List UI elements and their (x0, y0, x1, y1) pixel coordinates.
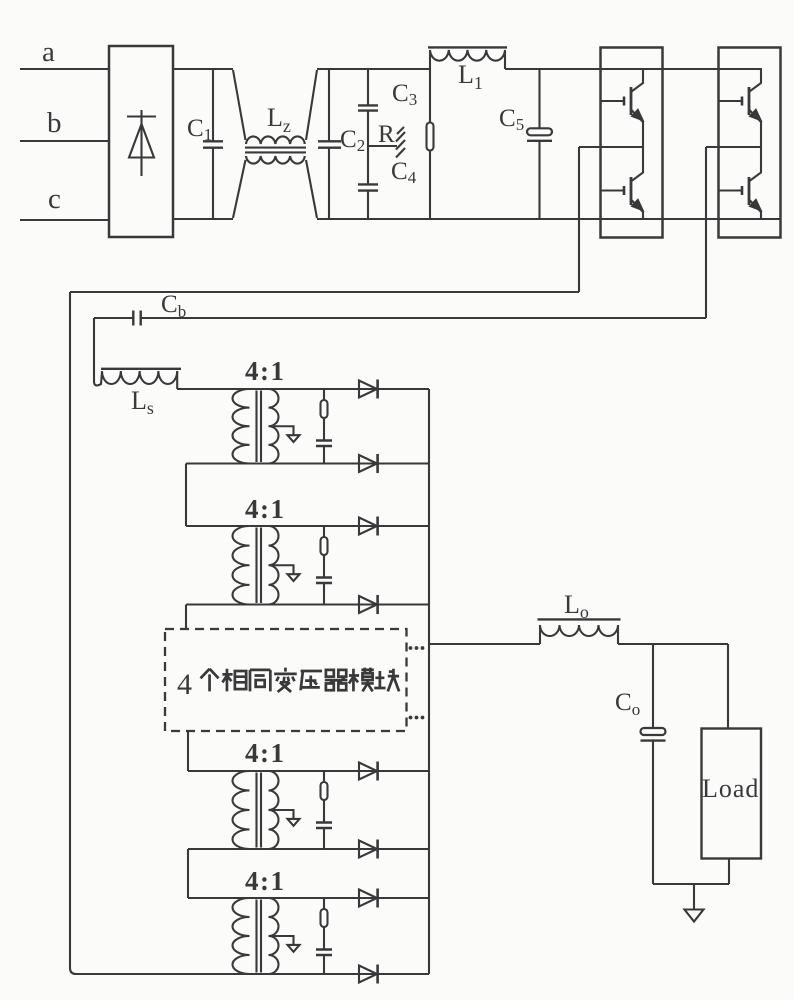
capacitor C2 snubber (316, 578, 332, 584)
wire module 3 bottom rail (188, 848, 429, 850)
wire module 2 top rail (186, 525, 429, 527)
transformer T1 secondary tap arrow (273, 426, 294, 435)
svg-text:4:1: 4:1 (245, 356, 286, 386)
wire Lo to load (618, 643, 728, 645)
svg-text:a: a (42, 36, 55, 68)
wire top DC rail (173, 68, 762, 70)
capacitor C3 (358, 69, 378, 146)
svg-text:C2: C2 (340, 126, 365, 155)
resistor branch with fuse-style element (427, 69, 434, 219)
load box (702, 729, 762, 859)
resistor R1 snubber (323, 389, 325, 400)
diode D1b bottom (359, 455, 377, 472)
svg-text:c: c (48, 183, 61, 215)
capacitor C1 (203, 69, 223, 219)
diode D3a top (359, 763, 377, 780)
wire bridge1 return to left rail (70, 291, 579, 293)
wire module 3 top rail (188, 770, 429, 772)
wire left rail down (70, 292, 76, 974)
wire node to damping R (368, 145, 397, 147)
wire down to Ls (93, 318, 95, 381)
transformer T1 secondary winding (269, 389, 279, 464)
svg-text:C1: C1 (187, 115, 212, 144)
svg-text:R: R (378, 121, 395, 148)
wire primary link module3 to module4 (187, 849, 189, 898)
transformer T4 core (257, 900, 262, 973)
svg-text:Load: Load (702, 774, 759, 803)
capacitor C4 snubber (316, 950, 332, 956)
IGBT Q4 bottom of bridge 2 (720, 147, 762, 219)
transformer T2 primary winding (233, 526, 250, 605)
svg-text:C3: C3 (392, 80, 417, 109)
capacitor C4 (358, 146, 378, 219)
svg-text:Ls: Ls (131, 386, 154, 418)
svg-text:Lz: Lz (267, 103, 291, 136)
inverter bridge block 1 (601, 48, 663, 238)
transformer T3 secondary tap arrow (273, 810, 294, 819)
diode D3b bottom (359, 841, 377, 858)
wire module 1 bottom rail (186, 462, 429, 464)
svg-text:L1: L1 (458, 60, 483, 93)
svg-text:4:1: 4:1 (245, 494, 286, 524)
node ellipsis top (409, 646, 413, 650)
capacitor Co (641, 644, 666, 884)
inductor Ls (94, 369, 181, 389)
svg-text:C5: C5 (499, 105, 524, 134)
wire output from bus to Lo (429, 643, 540, 645)
diode D4b bottom (359, 966, 377, 983)
wire output return (653, 883, 729, 885)
transformer T3 primary winding (233, 771, 250, 849)
capacitor C1 snubber (316, 441, 332, 447)
svg-text:Lo: Lo (564, 590, 589, 622)
wire primary link dashed box to module3 (187, 731, 189, 771)
inductor Lz common-mode choke (233, 70, 317, 218)
wire rectifier output bus (428, 389, 430, 974)
transformer T4 secondary winding (269, 898, 279, 974)
resistor R2 snubber (323, 526, 325, 537)
svg-text:4: 4 (177, 668, 192, 701)
IGBT Q3 top of bridge 2 (720, 69, 762, 147)
diode inside rectifier (127, 110, 156, 176)
wire phase b input (20, 140, 109, 142)
ground (685, 884, 704, 922)
wire bridge 2 midpoint (706, 147, 761, 318)
IGBT Q2 bottom of bridge 1 (602, 147, 644, 219)
wire phase a input (20, 68, 109, 70)
diode D2b bottom (359, 596, 377, 613)
inductor Lo (538, 619, 621, 644)
node ellipsis bottom (409, 716, 413, 720)
wire primary link module1 to module2 (185, 464, 187, 527)
svg-text:Cb: Cb (161, 291, 186, 321)
capacitor Cb (94, 311, 706, 326)
wire bottom DC rail (173, 218, 781, 220)
svg-text:Co: Co (615, 689, 640, 719)
wire primary link module2 into dashed box (185, 605, 187, 631)
label text: 4 identical transformer modules (4个相同变压器模块) (177, 668, 399, 701)
wire phase c input (20, 219, 109, 221)
capacitor C5 (527, 69, 552, 219)
transformer T4 secondary tap arrow (273, 936, 294, 945)
resistor R3 snubber (323, 771, 325, 782)
dashed box 4 identical transformer modules (165, 629, 407, 731)
transformer T1 core (257, 391, 262, 463)
capacitor C2 (318, 69, 341, 219)
resistor R chassis hatch symbol (396, 127, 405, 158)
transformer T2 core (257, 528, 262, 604)
wire bottom return rail (76, 973, 429, 975)
inverter bridge block 2 (719, 48, 781, 238)
resistor R4 snubber (323, 898, 325, 909)
svg-text:b: b (47, 107, 62, 139)
wire module 2 bottom rail (186, 603, 429, 605)
transformer T4 primary winding (233, 898, 250, 974)
transformer T2 secondary winding (269, 526, 279, 605)
diode D1a top (359, 381, 377, 398)
inductor L1 (428, 47, 507, 69)
IGBT Q1 top of bridge 1 (602, 69, 644, 147)
transformer T3 core (257, 773, 262, 848)
transformer T3 secondary winding (269, 771, 279, 849)
svg-text:C4: C4 (391, 158, 417, 187)
capacitor C3 snubber (316, 823, 332, 829)
svg-text:4:1: 4:1 (245, 738, 286, 768)
rectifier block (109, 46, 173, 237)
svg-text:4:1: 4:1 (245, 866, 286, 896)
transformer T1 primary winding (233, 389, 250, 464)
diode D4a top (359, 890, 377, 907)
diode D2a top (359, 518, 377, 535)
transformer T2 secondary tap arrow (273, 565, 294, 574)
wire load bottom (728, 859, 730, 885)
wire into load top (727, 644, 729, 729)
wire module 4 top rail (188, 897, 429, 899)
wire bridge 1 midpoint (579, 147, 643, 292)
wire module 1 top rail (177, 388, 429, 390)
